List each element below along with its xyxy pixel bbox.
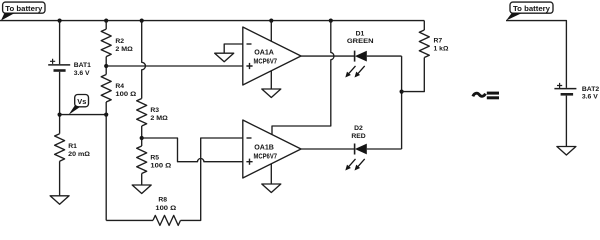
- svg-text:2 MΩ: 2 MΩ: [150, 115, 168, 122]
- wire OA1B - input down to bottom rail: [181, 138, 243, 220]
- battery BAT2 3.6 V: [554, 83, 599, 101]
- wire right flag to BAT2: [506, 21, 566, 88]
- svg-text:MCP6V7: MCP6V7: [254, 151, 278, 160]
- LED D2 RED: [345, 125, 367, 171]
- resistor R5 100 Ω: [137, 146, 172, 174]
- node Vs flag: [69, 95, 89, 115]
- wire R3/R5 node to OA1B + input with hop: [142, 138, 243, 162]
- ground below OA1B: [262, 184, 281, 193]
- svg-text:GREEN: GREEN: [347, 38, 374, 45]
- resistor R4 100 Ω: [101, 75, 137, 103]
- resistor R8 100 Ω: [153, 197, 181, 226]
- node junction R2/R4: [104, 64, 108, 68]
- op-amp OA1B MCP6V7: [243, 120, 301, 178]
- node junction Vs right: [104, 113, 108, 117]
- wire D2 to LED rail: [367, 148, 402, 150]
- wire OA1A output to D1 with hop over V+ riser: [301, 55, 355, 57]
- net flag "To battery" (left): [1, 2, 45, 21]
- net flag "To battery" (right): [506, 2, 553, 21]
- wire D1 to LED rail: [367, 55, 402, 57]
- ground below OA1A: [262, 89, 281, 98]
- wire top rail to R3: [142, 21, 146, 99]
- wire Vs node horizontal: [60, 114, 107, 116]
- node junction top rail / OA1B V+: [329, 19, 333, 23]
- ground below BAT2: [557, 147, 576, 156]
- wire top rail to BAT1: [59, 21, 61, 65]
- svg-text:R1: R1: [68, 143, 77, 150]
- wire R2 to R4: [105, 57, 107, 75]
- svg-text:2 MΩ: 2 MΩ: [115, 46, 133, 53]
- resistor R2 2 MΩ: [101, 29, 133, 56]
- wire R5 to ground: [141, 174, 143, 186]
- wire R3 to R5: [141, 126, 143, 146]
- svg-text:3.6 V: 3.6 V: [582, 94, 598, 101]
- svg-text:BAT2: BAT2: [582, 86, 599, 93]
- wire bottom rail left: [106, 219, 153, 221]
- wire OA1A V- stub: [270, 71, 272, 89]
- svg-text:R5: R5: [150, 155, 159, 162]
- svg-text:1 kΩ: 1 kΩ: [434, 46, 449, 53]
- svg-text:Vs: Vs: [77, 97, 86, 106]
- wire OA1B output to D2: [301, 148, 355, 150]
- wire OA1B V- stub: [270, 164, 272, 184]
- resistor R7 1 kΩ: [419, 30, 449, 58]
- battery BAT1 3.6 V: [48, 59, 91, 77]
- wire top rail into R7: [423, 21, 425, 30]
- resistor R3 2 MΩ: [137, 99, 169, 127]
- svg-text:R4: R4: [115, 83, 124, 90]
- wire R2/R4 node to OA1A + input with hop: [106, 65, 243, 67]
- svg-text:100 Ω: 100 Ω: [115, 91, 137, 98]
- wire BAT2 to ground: [565, 96, 567, 147]
- svg-text:20 mΩ: 20 mΩ: [68, 151, 90, 158]
- node junction top rail / R3: [140, 19, 144, 23]
- wire R4 down to bottom rail: [105, 102, 107, 220]
- LED D1 GREEN: [345, 31, 373, 78]
- svg-text:100 Ω: 100 Ω: [155, 205, 177, 212]
- svg-text:R7: R7: [434, 38, 443, 45]
- wire R1 to ground: [59, 161, 61, 196]
- node junction top rail / OA1A V+: [269, 19, 273, 23]
- wire OA1A V+ stub: [270, 21, 272, 42]
- wire LED rail vertical: [401, 56, 403, 149]
- svg-text:D2: D2: [354, 125, 363, 132]
- resistor R1 20 mΩ: [55, 134, 91, 162]
- node junction LED rail / R7: [400, 90, 404, 94]
- svg-text:To battery: To battery: [513, 4, 550, 13]
- node junction top rail / BAT1: [58, 19, 62, 23]
- svg-text:OA1A: OA1A: [254, 48, 274, 57]
- svg-text:RED: RED: [351, 133, 365, 140]
- wire top rail: [0, 20, 424, 22]
- ground below R1: [50, 196, 69, 205]
- svg-text:3.6 V: 3.6 V: [74, 70, 90, 77]
- svg-text:BAT1: BAT1: [74, 62, 91, 69]
- wire OA1A - input to ground: [224, 44, 243, 53]
- svg-text:100 Ω: 100 Ω: [150, 163, 172, 170]
- node junction R3/R5: [140, 136, 144, 140]
- svg-text:R2: R2: [115, 38, 124, 45]
- svg-text:D1: D1: [356, 31, 365, 38]
- wire OA1B V+ riser from top rail: [272, 21, 334, 135]
- svg-text:R8: R8: [158, 197, 167, 204]
- wire top rail to R2: [105, 21, 107, 30]
- svg-text:OA1B: OA1B: [254, 143, 274, 152]
- wire R7 to LED rail node: [402, 58, 425, 92]
- svg-text:R3: R3: [150, 107, 159, 114]
- op-amp OA1A MCP6V7: [243, 27, 301, 85]
- approx-equals symbol: [473, 92, 499, 100]
- ground at OA1A - input: [215, 53, 234, 62]
- ground below R5: [132, 185, 151, 194]
- svg-text:To battery: To battery: [5, 4, 42, 13]
- node junction top rail / R2: [104, 19, 108, 23]
- node junction Vs left: [58, 113, 62, 117]
- svg-text:MCP6V7: MCP6V7: [254, 56, 278, 65]
- wire BAT1 to Vs node: [59, 72, 61, 134]
